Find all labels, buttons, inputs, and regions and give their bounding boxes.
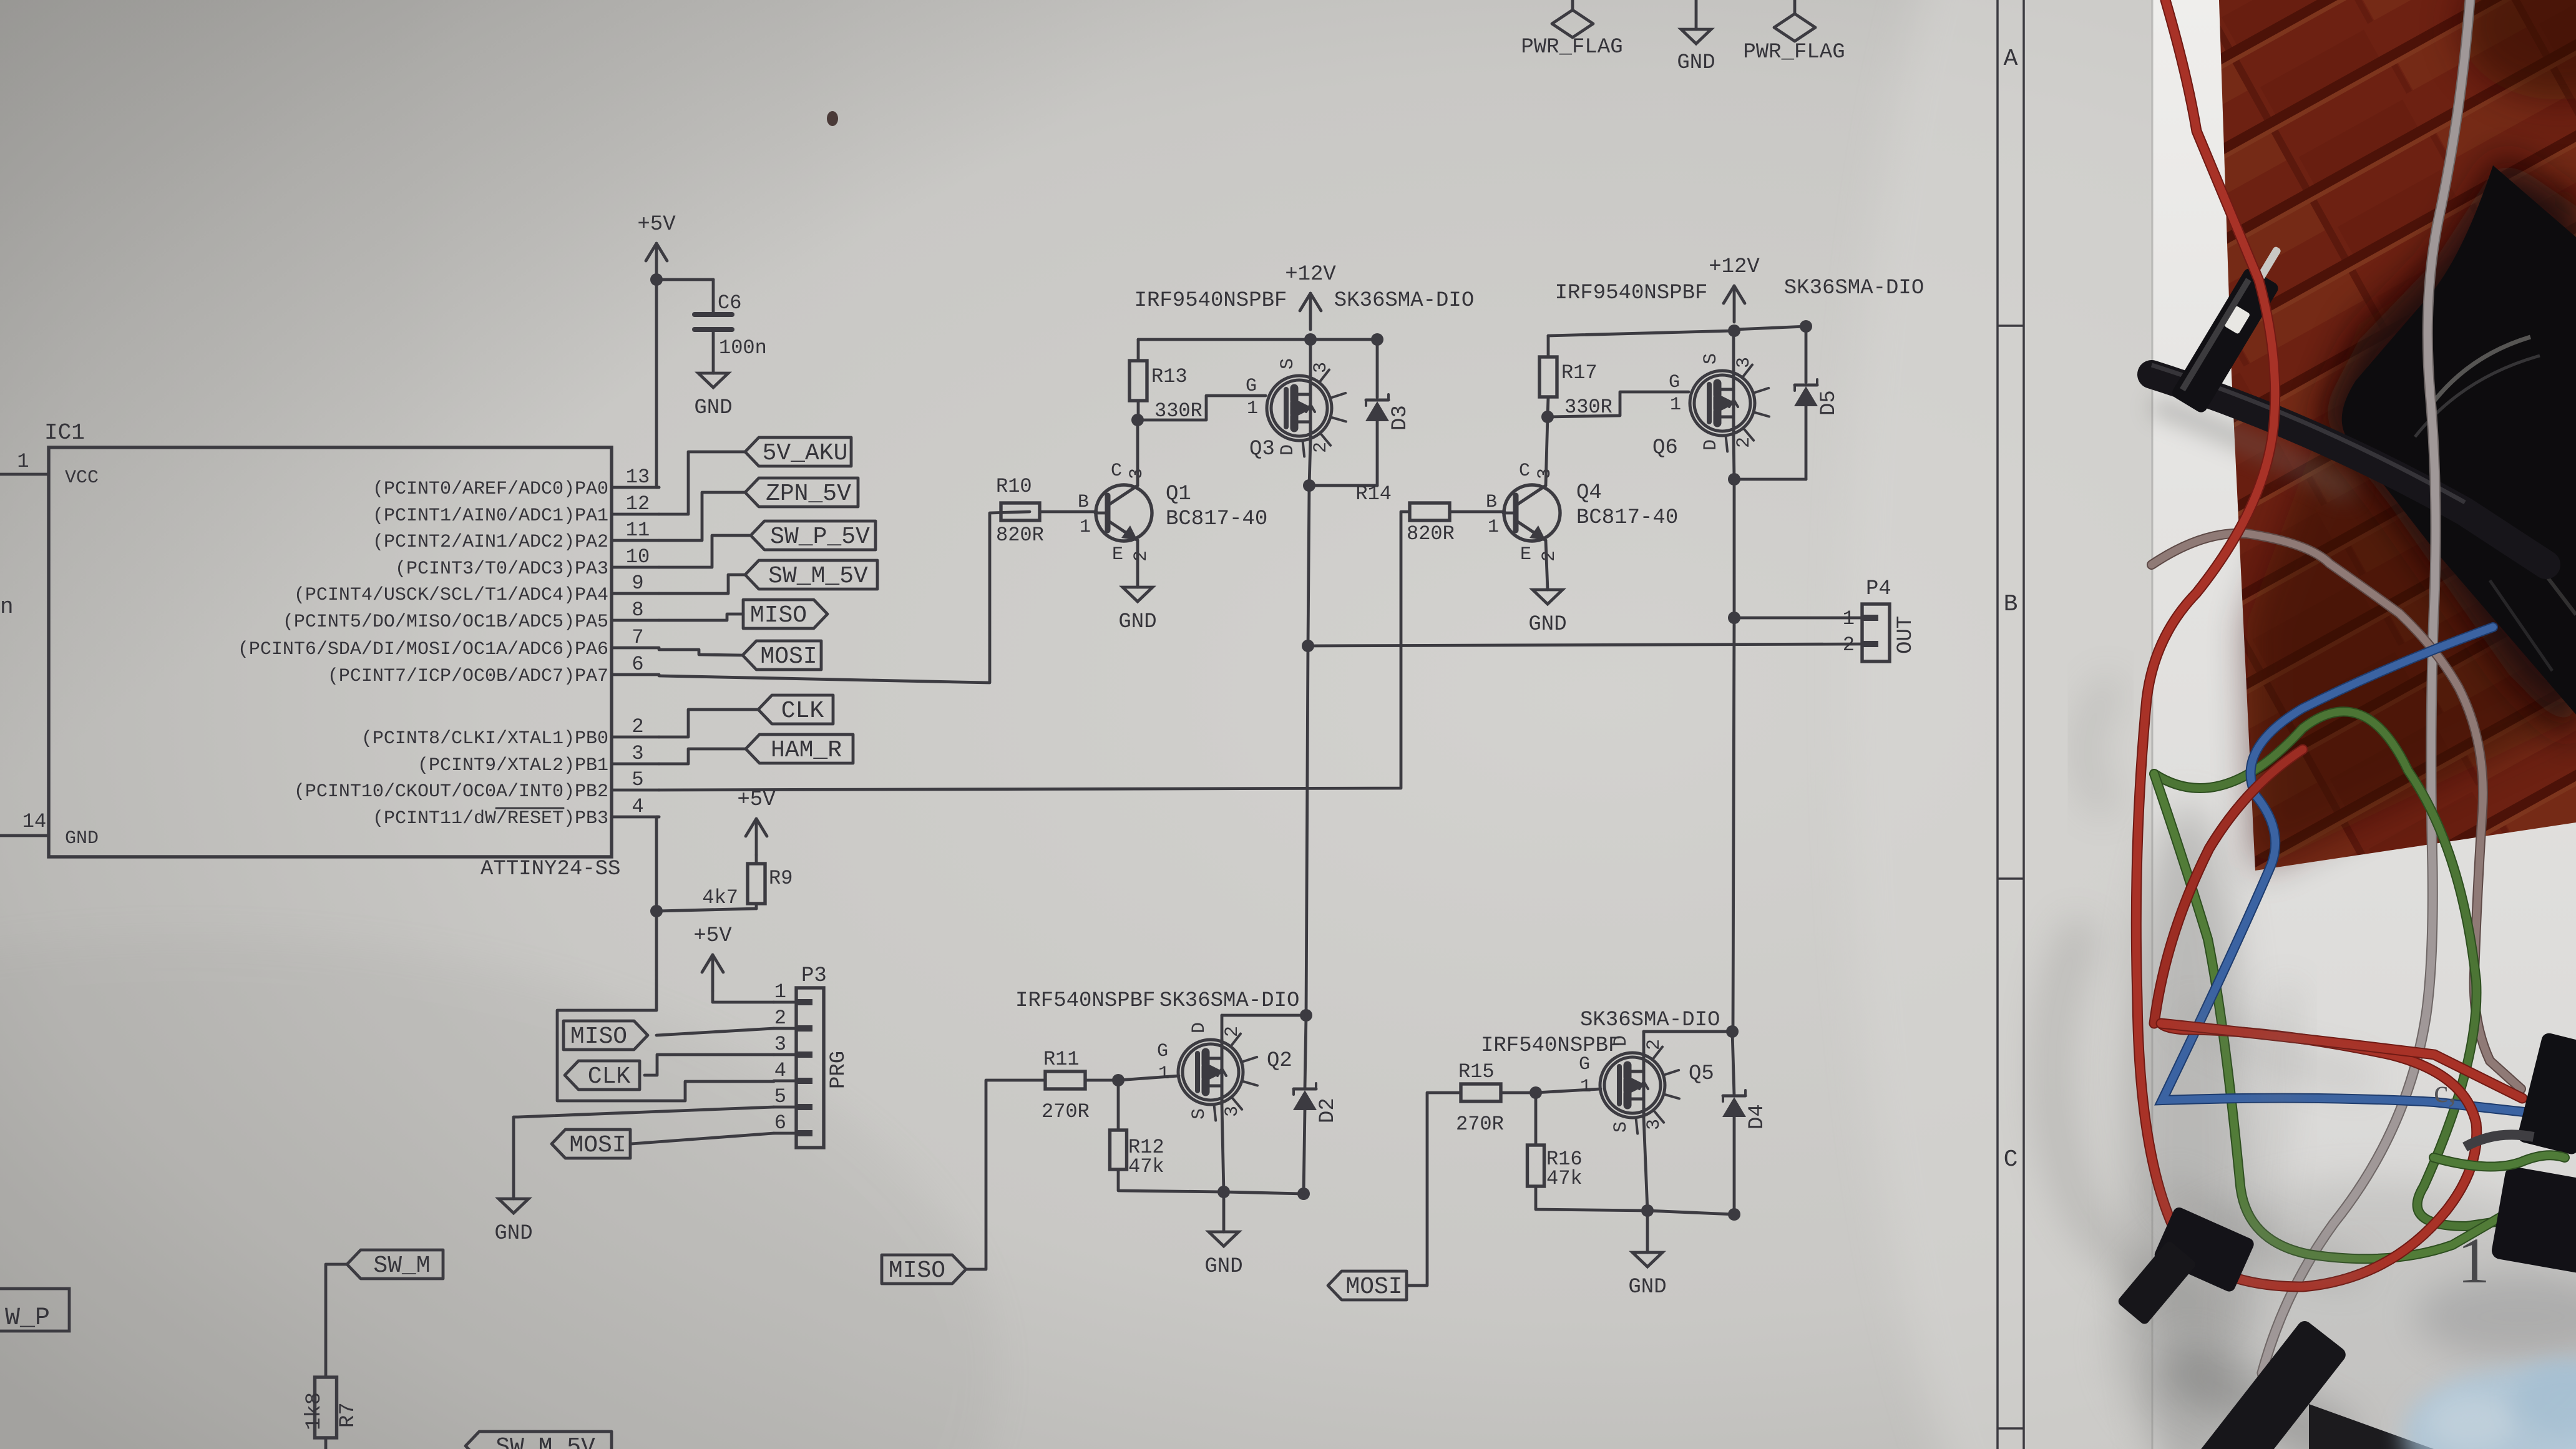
svg-text:S: S — [1277, 358, 1299, 369]
net label SW_M_5V (bottom, cut) — [466, 1432, 612, 1449]
svg-text:IRF9540NSPBF: IRF9540NSPBF — [1134, 289, 1287, 313]
svg-text:IC1: IC1 — [44, 420, 85, 446]
svg-text:5V_AKU: 5V_AKU — [763, 440, 848, 467]
svg-text:(PCINT4/USCK/SCL/T1/ADC4)PA4: (PCINT4/USCK/SCL/T1/ADC4)PA4 — [294, 585, 608, 606]
svg-text:B: B — [1078, 492, 1089, 513]
wire R12 bottom to source rail — [1118, 1169, 1224, 1192]
svg-text:IRF9540NSPBF: IRF9540NSPBF — [1555, 281, 1708, 305]
svg-text:R15: R15 — [1458, 1060, 1495, 1083]
svg-text:3: 3 — [1310, 362, 1332, 373]
node junction +12V rail / Q3 source — [1304, 333, 1317, 346]
svg-text:D5: D5 — [1817, 390, 1841, 416]
wire Q2 source down — [1222, 1105, 1224, 1192]
svg-text:14: 14 — [22, 810, 46, 833]
wire Q6 drain down — [1734, 436, 1734, 479]
svg-text:MOSI: MOSI — [569, 1132, 626, 1159]
svg-text:W_P: W_P — [5, 1304, 50, 1332]
wire PB1 to HAM_R — [659, 749, 746, 764]
label IRF9540NSPBF (Q3) — [1134, 289, 1287, 313]
svg-text:GND: GND — [65, 828, 99, 849]
wire R15 to Q5 gate — [1501, 1089, 1601, 1093]
svg-text:2: 2 — [1734, 437, 1755, 448]
svg-text:G: G — [1157, 1041, 1168, 1062]
svg-text:(PCINT0/AREF/ADC0)PA0: (PCINT0/AREF/ADC0)PA0 — [373, 479, 608, 500]
ground GND (P3) — [494, 1199, 532, 1246]
wire R10 to Q1 base — [1040, 510, 1096, 514]
svg-text:1: 1 — [1158, 1063, 1169, 1085]
svg-text:+12V: +12V — [1709, 255, 1760, 279]
node junction Q6 drain / D5 — [1728, 473, 1740, 485]
svg-text:270R: 270R — [1042, 1100, 1090, 1123]
mosfet Q5 IRF540NSPBF — [1579, 1035, 1714, 1134]
resistor R9 — [702, 864, 793, 909]
transistor Q4 BC817-40 — [1486, 461, 1678, 565]
net label MISO (to R11) — [882, 1255, 966, 1284]
wire Q6 drain node down to P4 — [1733, 479, 1736, 618]
svg-text:MOSI: MOSI — [1345, 1274, 1402, 1300]
wire PB3 pin4 down — [656, 817, 659, 911]
node junction D2 / source rail — [1297, 1188, 1310, 1200]
wire junction to C6 top — [656, 280, 713, 313]
svg-text:1: 1 — [1580, 1076, 1591, 1098]
label IRF9540NSPBF (Q6) — [1555, 281, 1708, 305]
net label HAM_R (to PB1) — [746, 734, 853, 764]
diode D4 SK36SMA-DIO — [1722, 1090, 1769, 1129]
node junction rail/D5 — [1800, 320, 1812, 333]
wire Q1 collector to R13 node — [1136, 420, 1139, 485]
wire PB0 to CLK — [659, 710, 758, 737]
svg-text:6: 6 — [632, 653, 643, 676]
svg-text:BC817-40: BC817-40 — [1576, 506, 1678, 530]
svg-text:SW_P_5V: SW_P_5V — [770, 524, 870, 550]
svg-text:R9: R9 — [769, 867, 793, 890]
svg-text:(PCINT9/XTAL2)PB1: (PCINT9/XTAL2)PB1 — [417, 755, 608, 776]
svg-text:3: 3 — [1644, 1119, 1665, 1130]
wire PA5 to MISO — [659, 614, 743, 620]
svg-text:SK36SMA-DIO: SK36SMA-DIO — [1580, 1008, 1720, 1032]
svg-text:ATTINY24-SS: ATTINY24-SS — [481, 857, 620, 881]
svg-text:D2: D2 — [1316, 1098, 1340, 1123]
wire Q5 source down — [1644, 1118, 1647, 1211]
svg-text:1: 1 — [1670, 394, 1681, 416]
net label MISO (to P3 pin2) — [563, 1021, 648, 1050]
IC1 pin 1 VCC wire — [0, 450, 49, 474]
wire R7 bottom — [324, 1438, 328, 1449]
svg-text:SW_M_5V: SW_M_5V — [768, 563, 868, 590]
svg-text:270R: 270R — [1456, 1113, 1504, 1136]
wire D2 top to node — [1305, 1015, 1306, 1089]
wire Q5 drain up to D4 node — [1644, 1032, 1732, 1053]
power +5V (P3) — [693, 924, 732, 991]
wire PA2 to ZPN_5V — [659, 492, 745, 540]
wire Q5 source to GND — [1646, 1211, 1649, 1252]
wire P3 pin 5 to GND — [514, 1107, 774, 1199]
power flag PWR_FLAG (left) — [1521, 0, 1622, 59]
svg-text:7: 7 — [632, 626, 643, 649]
resistor R16 — [1528, 1145, 1583, 1190]
node junction Q2 drain / output column — [1300, 1009, 1312, 1022]
power +5V (top rail) — [637, 213, 676, 280]
wire Q3 gate elbow — [1138, 396, 1266, 420]
ground GND (C6) — [694, 373, 732, 420]
svg-text:PRG: PRG — [827, 1051, 851, 1089]
svg-text:PWR_FLAG: PWR_FLAG — [1743, 41, 1845, 64]
svg-text:SW_M: SW_M — [373, 1252, 430, 1279]
svg-text:R13: R13 — [1151, 365, 1188, 388]
power +12V (left) — [1285, 263, 1336, 329]
node junction P4 pin1 / FET drain column — [1728, 612, 1740, 624]
label IRF540NSPBF (Q2) — [1015, 989, 1155, 1013]
svg-text:R11: R11 — [1043, 1048, 1080, 1071]
node junction Q2 source / GND — [1217, 1186, 1230, 1198]
svg-text:GND: GND — [1677, 51, 1715, 75]
svg-text:CLK: CLK — [781, 698, 824, 724]
wire Q6 gate elbow — [1548, 392, 1689, 417]
net label MOSI (to R15) — [1328, 1271, 1407, 1300]
node junction Q3 drain / D3 — [1303, 479, 1315, 492]
svg-text:3: 3 — [632, 742, 643, 765]
wire MOSI to P3 pin 6 — [631, 1133, 774, 1144]
svg-text:R10: R10 — [996, 475, 1032, 498]
wire +5V to R9 top — [755, 855, 758, 864]
svg-text:VCC: VCC — [65, 467, 99, 489]
wire rail to D3 top — [1310, 339, 1377, 398]
wire Q3 source to rail — [1309, 339, 1312, 376]
svg-text:D: D — [1700, 439, 1722, 451]
svg-text:(PCINT6/SDA/DI/MOSI/OC1A/ADC6): (PCINT6/SDA/DI/MOSI/OC1A/ADC6)PA6 — [238, 639, 608, 660]
svg-text:HAM_R: HAM_R — [771, 737, 842, 764]
wire PB3 net down to P3 pin 4 — [557, 911, 774, 1101]
wire D5 to drain node — [1734, 406, 1806, 479]
IC1 pin 14 GND wire — [0, 810, 49, 836]
svg-text:5: 5 — [774, 1085, 786, 1108]
svg-text:D: D — [1189, 1022, 1210, 1033]
svg-text:11: 11 — [626, 519, 650, 542]
wire +5V down to PA0 pin 13 — [656, 280, 659, 487]
svg-text:c,: c, — [2434, 1074, 2456, 1110]
svg-text:MISO: MISO — [570, 1023, 627, 1050]
svg-text:10: 10 — [626, 545, 650, 568]
svg-text:12: 12 — [626, 492, 650, 515]
node junction D4 / source rail — [1728, 1208, 1740, 1221]
svg-text:+12V: +12V — [1285, 263, 1336, 286]
svg-text:MOSI: MOSI — [760, 643, 817, 670]
net label 5V_AKU — [745, 437, 851, 467]
svg-text:GND: GND — [694, 396, 732, 420]
resistor R11 — [1042, 1048, 1090, 1123]
wire MISO to P3 pin 2 — [656, 1028, 774, 1035]
wire MOSI to R15 — [1407, 1093, 1461, 1286]
wire R13 bottom to junction — [1137, 401, 1140, 420]
label SK36SMA-DIO (D4) — [1580, 1008, 1720, 1032]
svg-text:SK36SMA-DIO: SK36SMA-DIO — [1334, 289, 1474, 313]
svg-text:R14: R14 — [1355, 482, 1392, 505]
IC1 right-side pins with numbers — [238, 466, 659, 829]
wire Q2 source to GND — [1222, 1192, 1226, 1232]
capacitor C6 — [695, 291, 767, 359]
diode D2 SK36SMA-DIO — [1293, 1083, 1340, 1123]
ground GND (Q2) — [1204, 1232, 1242, 1279]
wire Q3 drain down — [1309, 441, 1310, 485]
svg-text:PWR_FLAG: PWR_FLAG — [1521, 36, 1622, 59]
wire PA3 to SW_P_5V — [659, 535, 751, 567]
svg-text:2: 2 — [1222, 1026, 1243, 1037]
node junction R11/R12 — [1112, 1074, 1125, 1086]
wire D3 to drain node — [1309, 421, 1377, 485]
svg-text:P4: P4 — [1866, 577, 1891, 601]
node junction R9 / PB3 net — [650, 905, 663, 917]
svg-text:4k7: 4k7 — [702, 886, 738, 909]
svg-text:2: 2 — [1843, 633, 1855, 656]
wire R16 bottom to source rail — [1536, 1186, 1647, 1211]
svg-text:A: A — [2004, 46, 2018, 72]
net label CLK (from P3 pin3) — [565, 1061, 640, 1090]
power flag PWR_FLAG (right) — [1743, 0, 1845, 64]
svg-text:Q1: Q1 — [1166, 482, 1191, 506]
svg-text:820R: 820R — [1407, 522, 1455, 545]
wire R13 top to +12V rail — [1138, 339, 1310, 361]
label SK36SMA-DIO (D3) — [1334, 289, 1474, 313]
wire output column to D2 node — [1306, 646, 1308, 1015]
wire D2 bottom to source rail — [1304, 1110, 1305, 1194]
svg-text:(PCINT5/DO/MISO/OC1B/ADC5)PA5: (PCINT5/DO/MISO/OC1B/ADC5)PA5 — [283, 612, 608, 633]
svg-text:820R: 820R — [996, 524, 1044, 547]
svg-text:G: G — [1669, 372, 1680, 393]
svg-text:B: B — [1486, 492, 1497, 513]
svg-text:C: C — [1519, 461, 1530, 482]
wire source rail — [1224, 1192, 1304, 1194]
svg-text:P3: P3 — [801, 964, 827, 988]
svg-text:+5V: +5V — [693, 924, 732, 948]
net label SW_M — [347, 1250, 443, 1279]
wire SW_M to R7 — [326, 1264, 347, 1377]
net label W_P (cut) — [0, 1289, 69, 1332]
svg-text:2: 2 — [1131, 550, 1152, 562]
svg-text:2: 2 — [1644, 1039, 1665, 1050]
net label ZPN_5V — [745, 478, 858, 507]
svg-text:GND: GND — [1528, 613, 1566, 637]
svg-text:IRF540NSPBF: IRF540NSPBF — [1015, 989, 1155, 1013]
wire junction to R16 top — [1534, 1093, 1538, 1145]
net label MOSI (from P3 pin6) — [552, 1129, 630, 1159]
svg-text:5: 5 — [632, 768, 643, 791]
wire Q5 source rail — [1647, 1211, 1734, 1214]
node junction R15/R16 — [1529, 1086, 1542, 1099]
svg-text:OUT: OUT — [1894, 616, 1918, 654]
wire PA1 to 5V_AKU — [659, 452, 745, 514]
wire R11 to Q2 gate — [1085, 1076, 1179, 1080]
net label MOSI (to PA6) — [743, 641, 821, 670]
svg-text:D: D — [1611, 1035, 1632, 1046]
svg-text:MISO: MISO — [889, 1257, 945, 1284]
resistor R17 — [1539, 357, 1612, 419]
svg-text:D4: D4 — [1745, 1104, 1769, 1129]
wire rail to D5 top — [1734, 326, 1806, 383]
wire R17 top to +12V rail — [1548, 331, 1734, 357]
svg-text:6: 6 — [774, 1111, 786, 1134]
svg-text:13: 13 — [626, 466, 650, 489]
svg-text:(PCINT1/AIN0/ADC1)PA1: (PCINT1/AIN0/ADC1)PA1 — [373, 505, 608, 527]
mosfet Q2 IRF540NSPBF — [1157, 1022, 1292, 1121]
svg-text:IRF540NSPBF: IRF540NSPBF — [1481, 1034, 1621, 1058]
power +5V (R9) — [737, 788, 776, 855]
wire junction to R9 bottom — [656, 904, 756, 911]
wire +5V to P3 pin 1 — [713, 991, 774, 1002]
node junction rail/D3 — [1371, 333, 1383, 346]
wire MISO to R11 — [967, 1080, 1045, 1269]
svg-text:GND: GND — [1628, 1276, 1666, 1299]
svg-text:2: 2 — [774, 1007, 786, 1030]
svg-text:D3: D3 — [1388, 405, 1412, 431]
svg-text:1: 1 — [17, 450, 29, 473]
wire Q6 column below P4 — [1733, 618, 1734, 1032]
node junction R17/Q4/Q6-gate — [1541, 411, 1554, 423]
svg-text:G: G — [1579, 1054, 1590, 1075]
connector P4 OUT — [1843, 577, 1918, 661]
svg-text:9: 9 — [632, 572, 643, 595]
ground GND (Q5) — [1628, 1252, 1666, 1299]
wire PA4 to SW_M_5V — [659, 575, 745, 593]
node junction R13/Q1/Q3-gate — [1131, 414, 1144, 426]
svg-text:(PCINT10/CKOUT/OC0A/INT0)PB2: (PCINT10/CKOUT/OC0A/INT0)PB2 — [294, 781, 608, 803]
svg-text:Q2: Q2 — [1267, 1049, 1292, 1073]
wire junction to R12 top — [1117, 1080, 1120, 1130]
svg-text:B: B — [2004, 591, 2018, 618]
svg-text:E: E — [1112, 544, 1123, 565]
svg-text:+5V: +5V — [637, 213, 676, 237]
svg-text:(PCINT11/dW/RESET)PB3: (PCINT11/dW/RESET)PB3 — [373, 808, 608, 829]
wire D4 top to node — [1732, 1032, 1734, 1096]
partial text n at left edge — [0, 594, 14, 620]
node junction Q5 drain / output column — [1726, 1025, 1739, 1038]
svg-text:1: 1 — [1080, 517, 1091, 538]
wire P4 pin 2 long line to Q3 drain node — [1308, 644, 1862, 646]
resistor R13 — [1129, 361, 1203, 422]
svg-text:CLK: CLK — [588, 1063, 631, 1090]
svg-text:R17: R17 — [1561, 361, 1598, 384]
node junction Q5 source / GND — [1641, 1204, 1654, 1217]
svg-text:R7: R7 — [336, 1402, 360, 1428]
svg-text:1: 1 — [774, 980, 786, 1003]
svg-text:BC817-40: BC817-40 — [1166, 507, 1267, 531]
label IRF540NSPBF (Q5) — [1481, 1034, 1621, 1058]
diode D5 SK36SMA-DIO — [1794, 379, 1841, 416]
wire drain node down to P4 node — [1308, 485, 1309, 646]
net label MISO (from PA5) — [743, 600, 827, 629]
wire R14 to Q4 base — [1450, 510, 1505, 514]
svg-text:Q4: Q4 — [1576, 481, 1602, 505]
svg-text:(PCINT3/T0/ADC3)PA3: (PCINT3/T0/ADC3)PA3 — [395, 559, 608, 580]
resistor R10 — [996, 475, 1044, 547]
label SK36SMA-DIO (D2) — [1159, 989, 1299, 1013]
svg-text:1k8: 1k8 — [303, 1392, 326, 1430]
svg-text:S: S — [1700, 353, 1722, 364]
svg-text:3: 3 — [1222, 1106, 1243, 1117]
net label CLK (to PB0) — [758, 695, 833, 724]
svg-text:SK36SMA-DIO: SK36SMA-DIO — [1159, 989, 1299, 1013]
svg-text:Q5: Q5 — [1689, 1062, 1714, 1086]
node junction +5V/C6 — [650, 273, 663, 286]
svg-text:2: 2 — [1539, 550, 1560, 562]
net label SW_M_5V — [745, 560, 877, 590]
connector P3 PRG — [774, 964, 851, 1148]
resistor R12 — [1110, 1130, 1164, 1178]
ground GND (Q4) — [1528, 590, 1566, 637]
svg-text:(PCINT8/CLKI/XTAL1)PB0: (PCINT8/CLKI/XTAL1)PB0 — [361, 728, 608, 749]
svg-text:4: 4 — [774, 1059, 786, 1082]
wire C6 to GND — [712, 331, 715, 373]
power +12V (right) — [1709, 255, 1760, 322]
resistor R7 1k8 — [303, 1377, 360, 1438]
svg-text:D: D — [1277, 444, 1299, 456]
net label SW_P_5V — [751, 521, 876, 550]
svg-text:Q6: Q6 — [1652, 436, 1678, 460]
wire R17 bottom to junction — [1548, 397, 1548, 417]
node junction +12V rail / Q6 source — [1728, 324, 1740, 337]
svg-text:1: 1 — [1843, 607, 1855, 630]
svg-text:GND: GND — [494, 1222, 532, 1246]
ground GND (top) — [1677, 0, 1715, 75]
svg-text:4: 4 — [632, 795, 643, 818]
wire PA7 to R10 — [659, 512, 1030, 683]
svg-text:C: C — [1111, 461, 1122, 482]
svg-text:C: C — [2004, 1146, 2018, 1173]
node junction P4 pin2 line — [1302, 640, 1314, 652]
svg-text:S: S — [1189, 1108, 1210, 1120]
wire D4 bottom to source rail — [1733, 1117, 1736, 1214]
svg-text:GND: GND — [1204, 1255, 1242, 1279]
svg-text:47k: 47k — [1546, 1167, 1583, 1190]
svg-text:C6: C6 — [718, 291, 741, 315]
transistor Q1 BC817-40 — [1078, 461, 1267, 565]
wire Q1 emitter to GND — [1136, 540, 1139, 587]
svg-text:SW_M_5V: SW_M_5V — [495, 1434, 595, 1449]
svg-text:100n: 100n — [719, 336, 767, 359]
wire Q4 emitter to GND — [1546, 540, 1548, 590]
svg-text:S: S — [1611, 1121, 1632, 1133]
svg-text:3: 3 — [774, 1033, 786, 1056]
wire PA6 to MOSI — [659, 650, 743, 655]
svg-text:1: 1 — [2457, 1225, 2490, 1297]
wire Q4 collector to R17 node — [1546, 417, 1548, 485]
wire CLK to P3 pin 3 — [645, 1055, 774, 1075]
svg-text:47k: 47k — [1128, 1155, 1164, 1178]
wire Q2 drain up to D2 node — [1222, 1015, 1306, 1040]
ground GND (Q1) — [1118, 587, 1156, 634]
svg-text:1: 1 — [1488, 517, 1499, 538]
resistor R15 — [1456, 1060, 1504, 1136]
svg-text:MISO: MISO — [750, 602, 807, 629]
mosfet Q6 IRF9540NSPBF — [1652, 353, 1769, 460]
svg-text:GND: GND — [1118, 610, 1156, 634]
resistor R14 — [1355, 482, 1454, 545]
svg-text:3: 3 — [1734, 357, 1755, 368]
svg-text:ZPN_5V: ZPN_5V — [766, 481, 851, 507]
svg-text:+5V: +5V — [737, 788, 776, 812]
svg-text:8: 8 — [632, 598, 643, 622]
diode D3 SK36SMA-DIO — [1365, 394, 1412, 431]
svg-text:Q3: Q3 — [1249, 437, 1275, 461]
svg-text:1: 1 — [1247, 398, 1258, 419]
svg-text:2: 2 — [1310, 442, 1332, 453]
wire OUT node to P4 pin 1 — [1734, 617, 1862, 620]
svg-text:2: 2 — [632, 715, 643, 738]
wire Q6 source to rail — [1732, 331, 1735, 371]
IC U1 ATTINY24-SS body — [44, 420, 620, 881]
svg-text:n: n — [0, 594, 14, 620]
svg-text:G: G — [1246, 376, 1257, 397]
svg-text:E: E — [1520, 544, 1531, 565]
